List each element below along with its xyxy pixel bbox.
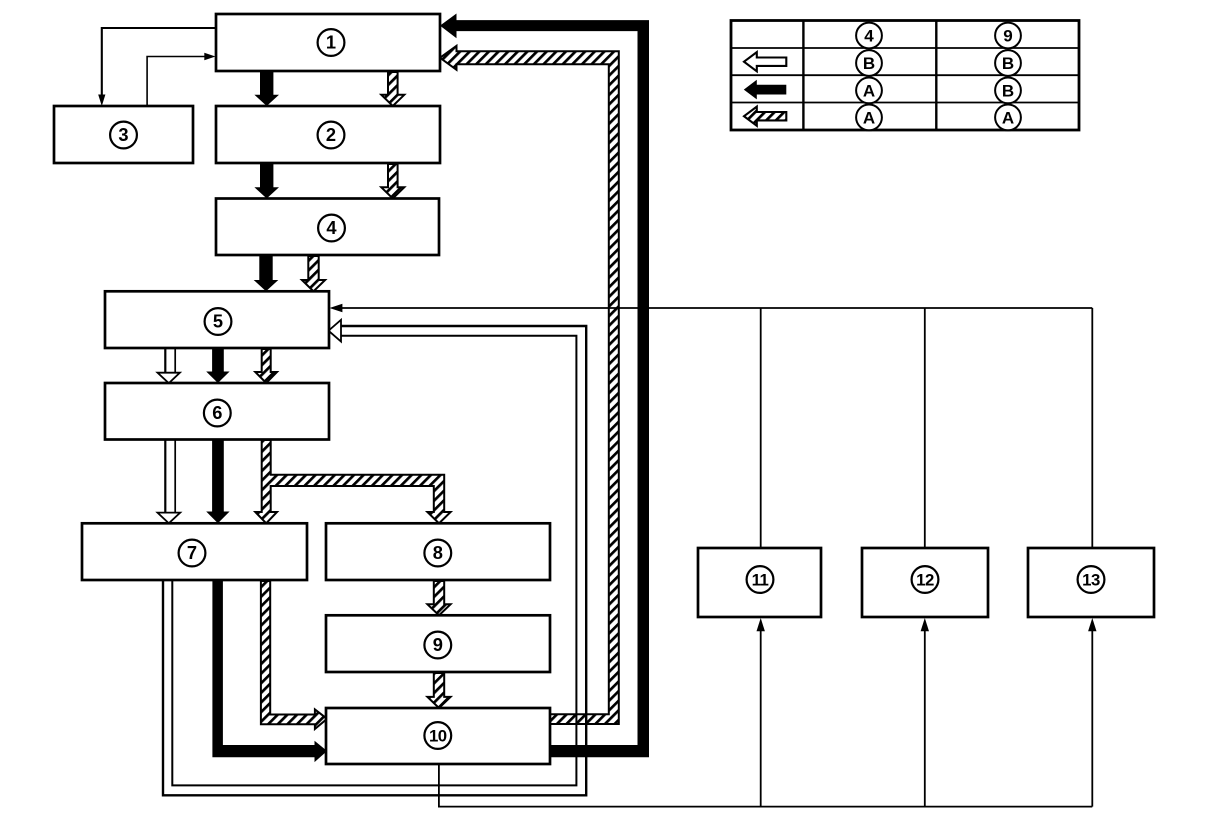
svg-text:4: 4 <box>864 27 874 46</box>
svg-text:A: A <box>863 109 875 128</box>
svg-text:8: 8 <box>433 542 443 563</box>
svg-text:9: 9 <box>1003 27 1012 46</box>
svg-text:A: A <box>863 82 875 101</box>
svg-text:10: 10 <box>429 727 447 746</box>
svg-text:4: 4 <box>326 217 337 238</box>
svg-text:B: B <box>1002 82 1014 101</box>
svg-text:7: 7 <box>187 542 197 563</box>
svg-text:6: 6 <box>212 402 222 423</box>
svg-text:9: 9 <box>433 634 443 655</box>
svg-text:12: 12 <box>916 571 934 590</box>
svg-text:13: 13 <box>1082 571 1100 590</box>
svg-text:B: B <box>1002 54 1014 73</box>
svg-text:1: 1 <box>326 32 336 53</box>
svg-text:A: A <box>1002 109 1014 128</box>
svg-text:3: 3 <box>118 124 128 145</box>
svg-text:2: 2 <box>326 124 336 145</box>
svg-text:B: B <box>863 54 875 73</box>
svg-text:11: 11 <box>752 571 769 590</box>
svg-text:5: 5 <box>213 311 223 332</box>
